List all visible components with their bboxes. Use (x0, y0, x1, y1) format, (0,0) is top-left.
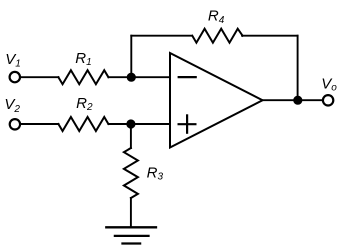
svg-text:Vo: Vo (321, 76, 337, 94)
resistor R4 (192, 29, 242, 43)
terminal Vo (323, 95, 333, 105)
node: output junction (293, 96, 302, 105)
svg-text:V2: V2 (4, 96, 20, 115)
wire R1 to op-amp inverting input (108, 76, 170, 78)
resistor R1 (58, 70, 108, 84)
wire V1 to R1 (21, 76, 59, 78)
node: inverting input junction (127, 73, 136, 82)
terminal V2 (10, 119, 20, 129)
wire op-amp output to Vo (263, 99, 323, 101)
wire junction down to R3 (130, 124, 132, 148)
resistor R2 (58, 117, 108, 131)
svg-text:R1: R1 (75, 50, 91, 68)
resistor R3 (124, 148, 138, 198)
wire junction up to feedback (130, 36, 132, 77)
svg-text:R4: R4 (208, 8, 225, 26)
terminal V1 (10, 72, 20, 82)
wire R4 to right corner (242, 35, 298, 37)
svg-text:V1: V1 (5, 51, 21, 70)
op-amp U1 (170, 53, 263, 148)
svg-text:R2: R2 (76, 95, 93, 113)
ground (106, 227, 156, 243)
wire feedback top left (131, 35, 192, 37)
svg-text:R3: R3 (147, 164, 164, 182)
wire feedback down to output node (297, 36, 299, 101)
wire V2 to R2 (21, 123, 59, 125)
wire R3 to ground (130, 198, 132, 227)
wire R2 to op-amp non-inverting input (108, 123, 170, 125)
node: non-inverting input junction (126, 119, 135, 128)
